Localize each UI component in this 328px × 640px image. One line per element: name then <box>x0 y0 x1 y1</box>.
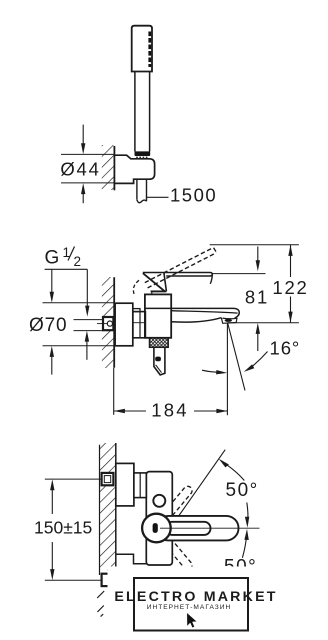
wall hatch fig3 upper <box>100 443 116 473</box>
spout crease <box>171 311 237 313</box>
50 top arc end arrow <box>245 517 249 528</box>
dim 81 lever extension <box>213 273 266 275</box>
fitting centerline <box>97 323 107 325</box>
dim 150 bottom extension <box>45 579 102 581</box>
svg-text:150±15: 150±15 <box>34 518 92 538</box>
dashed open lever <box>145 248 217 288</box>
escutcheon top view <box>116 463 134 506</box>
wall line fig1 <box>113 146 115 190</box>
dashed rotated lever up 50 <box>161 485 194 522</box>
50 bottom arc <box>242 533 247 558</box>
shower outlet tube <box>154 347 165 375</box>
fitting bottom arrow <box>85 331 89 360</box>
connector neck <box>133 312 146 338</box>
aerator blob <box>225 319 232 322</box>
wall inner line fig3 <box>99 445 101 575</box>
svg-text:1500: 1500 <box>170 185 217 206</box>
nut knurl row <box>136 157 149 159</box>
16deg right arrow + arc <box>244 352 268 372</box>
dim Ø70 bottom arrow <box>50 346 54 375</box>
neck top view <box>134 473 146 498</box>
wall extension to 184 <box>113 368 115 415</box>
svg-text:Ø70: Ø70 <box>29 315 67 336</box>
body top view <box>146 472 172 565</box>
mouse cursor <box>187 613 197 628</box>
fitting extension lines <box>74 320 103 331</box>
aerator <box>221 318 237 324</box>
50 top arc to text <box>227 465 245 481</box>
watermark box <box>134 578 248 631</box>
knurled nut <box>150 338 169 348</box>
50 top arrowhead on ref line <box>219 459 229 468</box>
svg-text:2: 2 <box>74 254 82 269</box>
escutcheon <box>115 303 133 346</box>
slanted 16deg line <box>228 324 245 391</box>
spout level extension line <box>227 322 299 324</box>
conical hose nut (dark band) <box>135 151 151 156</box>
spout underside <box>171 318 221 322</box>
wall hatch fig1 <box>102 145 114 190</box>
cartridge screw circle <box>153 495 165 507</box>
neck centerline <box>133 322 146 324</box>
svg-text:ELECTRO MARKET: ELECTRO MARKET <box>114 589 277 605</box>
lever centerline <box>160 527 260 529</box>
connector cap <box>133 309 140 312</box>
dim Ø44 bottom arrow <box>81 183 85 203</box>
lever arm inner top view <box>166 522 211 535</box>
wall union fitting top view <box>102 473 114 485</box>
wall line fig2 <box>113 277 115 368</box>
lever base left tick <box>151 291 153 294</box>
lever bar <box>143 273 213 277</box>
leader 1500 <box>147 196 169 198</box>
spout top <box>145 308 239 318</box>
G1/2 leader arrow to fitting <box>85 269 89 316</box>
dim 150 top extension <box>45 478 102 480</box>
wall hatch fig2 lower <box>102 331 114 368</box>
hose break wave <box>137 200 147 203</box>
lever base diagonal <box>143 273 165 291</box>
lever pivot circle <box>142 514 171 543</box>
lever base right edge <box>164 273 167 292</box>
dim 184 <box>114 409 227 413</box>
svg-text:81: 81 <box>245 287 269 308</box>
50 bottom arc start arrow <box>244 529 248 540</box>
dim Ø70 top arrow <box>50 269 54 302</box>
shower handle tube <box>135 72 150 152</box>
watermark white area <box>108 567 328 640</box>
dim 81 bottom arrow <box>256 323 260 351</box>
wall hatch fig3 lower <box>100 485 116 570</box>
G1/2 wall union fitting <box>103 317 113 330</box>
lever tip hook <box>210 275 212 284</box>
outlet inner line <box>156 365 162 373</box>
dim 150 bottom arrow <box>50 542 54 580</box>
dim 122 line + arrows <box>288 245 292 323</box>
lever arm outer top view <box>156 516 239 541</box>
thin 50deg ref line <box>176 450 226 521</box>
mixer body <box>145 294 171 337</box>
neck division top view <box>139 473 141 498</box>
dim 122 top extension <box>210 244 299 246</box>
bottom union fitting partial <box>102 574 114 586</box>
dim 81 top arrow <box>256 247 260 272</box>
neck division <box>139 312 141 338</box>
svg-text:50°: 50° <box>226 480 259 501</box>
dashed swing arc <box>133 280 139 295</box>
spray face strip <box>148 32 151 68</box>
dim Ø44 extension lines <box>61 154 114 183</box>
vertical ref line 16deg <box>226 323 228 415</box>
dashed rotated lever down 50 <box>161 535 194 572</box>
wall dashes below watermark <box>97 591 104 617</box>
wall hatch fig2 upper <box>102 277 114 317</box>
body bottom step <box>116 554 147 564</box>
svg-text:G: G <box>45 248 60 269</box>
outlet slot <box>155 357 161 362</box>
svg-text:ИНТЕРНЕТ-МАГАЗИН: ИНТЕРНЕТ-МАГАЗИН <box>147 604 232 611</box>
svg-text:Ø44: Ø44 <box>60 159 100 180</box>
shower hose <box>137 179 147 201</box>
dim Ø44 top arrow <box>81 125 85 155</box>
pivot slot <box>153 523 158 533</box>
hand shower head <box>132 26 152 72</box>
wall surface line fig3 <box>115 443 117 568</box>
svg-text:16°: 16° <box>270 338 301 359</box>
G1/2 underline <box>45 268 88 270</box>
shower holder <box>114 155 154 183</box>
fitting inner circle <box>107 321 112 326</box>
16deg left arrow <box>202 370 227 374</box>
fitting inner detail <box>104 476 110 483</box>
50 top arc lower part <box>247 503 248 524</box>
dim 150 top arrow <box>50 479 54 514</box>
lever base bottom <box>151 290 167 292</box>
svg-text:184: 184 <box>151 400 188 421</box>
dim Ø70 extension lines <box>43 303 114 346</box>
svg-text:122: 122 <box>272 277 308 298</box>
